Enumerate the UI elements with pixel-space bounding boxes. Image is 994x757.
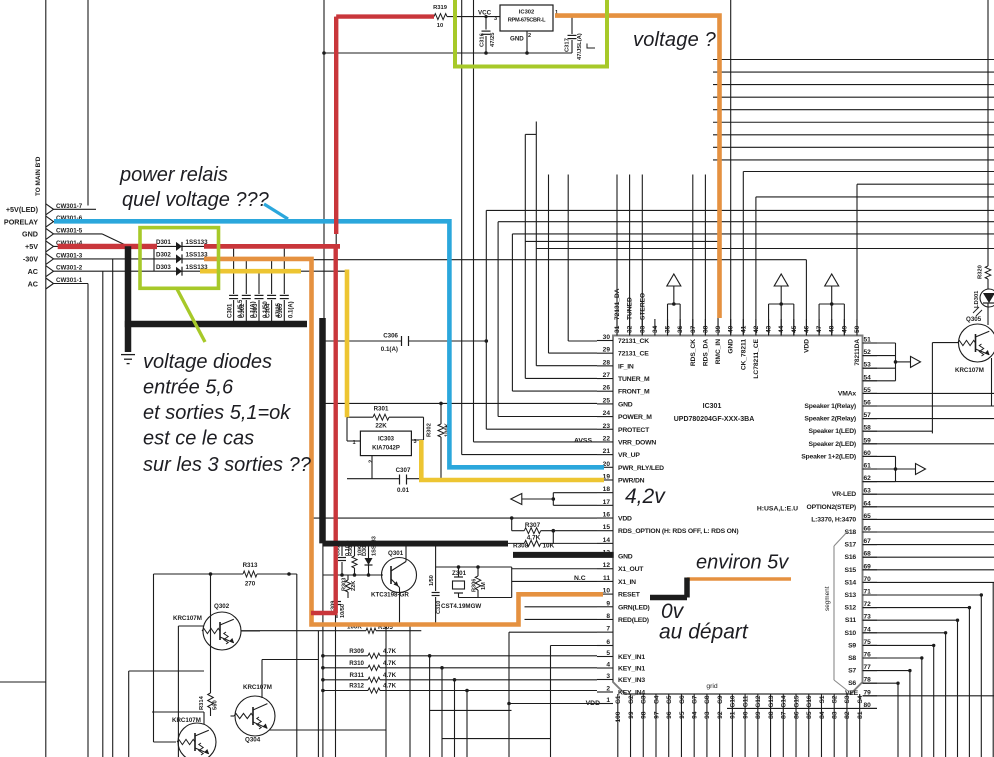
svg-text:grid: grid [706, 683, 718, 690]
wire vertical x473 to pin22 [474, 0, 598, 442]
annotation text environ 5v [696, 552, 789, 574]
svg-text:S9: S9 [848, 642, 856, 649]
wire staircase to pin23 [485, 210, 994, 429]
svg-text:S11: S11 [845, 617, 857, 624]
resistor R320 [978, 265, 991, 279]
wire D303 cathode row (under yellow) [204, 270, 348, 272]
svg-text:S12: S12 [845, 605, 857, 612]
svg-text:34: 34 [652, 325, 659, 333]
svg-text:26: 26 [603, 385, 611, 392]
svg-text:POWER_M: POWER_M [618, 414, 652, 421]
svg-text:G4: G4 [653, 695, 660, 704]
wire bus top right 9 lines [713, 60, 994, 160]
svg-text:S8: S8 [848, 655, 856, 662]
annotation text power relais quel voltage [119, 164, 270, 211]
svg-text:29: 29 [603, 347, 611, 354]
svg-text:+5V: +5V [25, 242, 38, 251]
wire row to R302 top [323, 402, 598, 406]
svg-text:16: 16 [603, 512, 611, 519]
wire R319 feed vertical (under red) [335, 17, 337, 247]
transistor Q302 KRC107M [173, 603, 241, 650]
annotation green box around IC302 [455, 0, 607, 67]
svg-text:LC78211_CE: LC78211_CE [753, 338, 760, 378]
label N.C [574, 575, 586, 582]
svg-text:S2: S2 [832, 695, 839, 703]
buffer triangle above pins 43-45 [769, 274, 794, 336]
crystal Z301 CST4.19MGW [441, 567, 481, 610]
annotation text 0v au depart [659, 600, 749, 644]
resistor R312 4.7K [321, 683, 597, 757]
annotation text voltage ? [633, 29, 717, 51]
svg-text:KEY_IN1: KEY_IN1 [618, 654, 645, 661]
svg-text:R320: R320 [978, 265, 984, 279]
svg-text:R319: R319 [433, 5, 448, 11]
svg-text:KRC107M: KRC107M [955, 367, 984, 374]
resistor R313 270 [154, 562, 297, 588]
wire annotation yellow PWR/DN trace [200, 270, 604, 481]
svg-text:D302: D302 [156, 252, 171, 259]
svg-text:91: 91 [730, 711, 737, 719]
svg-text:Speaker 2(LED): Speaker 2(LED) [809, 441, 856, 448]
svg-text:environ 5v: environ 5v [696, 552, 789, 574]
svg-text:90: 90 [742, 711, 749, 719]
transistor Q301 KTC3198-GR [371, 550, 417, 599]
wire VEE rows [727, 696, 994, 709]
svg-text:R311: R311 [350, 672, 365, 679]
svg-text:voltage ?: voltage ? [633, 29, 717, 51]
svg-text:94: 94 [691, 711, 698, 719]
svg-text:Q301: Q301 [388, 550, 404, 557]
svg-text:22K: 22K [351, 581, 357, 591]
svg-text:47/JSL(A): 47/JSL(A) [577, 33, 583, 60]
buffer arrow pins 60-62 [863, 456, 926, 481]
wire Q303 connections [0, 671, 204, 757]
svg-text:G5: G5 [666, 695, 673, 704]
capacitor C301 0.1/5.5 [227, 246, 243, 324]
transistor Q304 KRC107M [234, 684, 275, 744]
svg-text:KEY_IN1: KEY_IN1 [618, 666, 645, 673]
svg-text:40: 40 [728, 325, 735, 333]
resistor R319 10 [433, 5, 448, 29]
svg-text:STEREO: STEREO [639, 293, 646, 320]
svg-text:87: 87 [781, 711, 788, 719]
svg-text:PWR_RLY/LED: PWR_RLY/LED [618, 465, 664, 472]
svg-text:RDS_OPTION (H: RDS OFF, L: RD: RDS_OPTION (H: RDS OFF, L: RDS ON) [618, 528, 738, 535]
wire IC303 pin2 down [371, 456, 373, 479]
svg-text:24: 24 [603, 410, 611, 417]
op-amp U IC301 UPD780204GF-XXX-3BA microcontroller [613, 336, 863, 695]
resistor R306 1M [472, 567, 488, 598]
svg-text:X1_OUT: X1_OUT [618, 566, 644, 573]
resistor R301 22K [347, 406, 424, 441]
svg-text:TUNER_M: TUNER_M [618, 376, 650, 383]
wire R319 to IC302 VCC [447, 16, 500, 18]
svg-text:Q305: Q305 [966, 316, 982, 323]
svg-text:R303: R303 [342, 578, 348, 591]
capacitor C308 0.1(A) [336, 540, 352, 575]
svg-text:RPM-675CBR-L: RPM-675CBR-L [508, 18, 546, 24]
svg-text:86: 86 [793, 711, 800, 719]
svg-text:97: 97 [653, 711, 660, 719]
buffer triangle above pins 47-49 [819, 274, 844, 336]
resistor R309 4.7K [321, 648, 597, 757]
svg-text:VR_UP: VR_UP [618, 452, 640, 459]
wire vertical bus x324 [322, 0, 326, 320]
wire Q302 base feed [178, 626, 204, 757]
svg-text:G16: G16 [806, 695, 813, 708]
svg-text:voltage diodes: voltage diodes [143, 351, 272, 373]
svg-text:7: 7 [606, 626, 610, 633]
svg-text:D301: D301 [156, 239, 171, 246]
svg-text:RDS_CK: RDS_CK [690, 339, 697, 366]
svg-text:84: 84 [819, 711, 826, 719]
annotation text 4,2v [625, 485, 666, 508]
wire annotation red +5V trace [58, 17, 434, 613]
svg-text:G1: G1 [615, 695, 622, 704]
svg-text:78211DA: 78211DA [854, 339, 861, 366]
svg-text:G12: G12 [755, 695, 762, 708]
svg-text:33: 33 [639, 325, 646, 333]
svg-text:G14: G14 [781, 695, 788, 708]
capacitor C309 10/50 [331, 575, 347, 618]
svg-text:H:USA,L:E.U: H:USA,L:E.U [757, 506, 798, 513]
wire Q302 connections [211, 574, 261, 650]
wire feeds to pins 37,38 [693, 175, 706, 336]
svg-text:39: 39 [715, 325, 722, 333]
svg-text:AC: AC [28, 279, 38, 288]
svg-text:Speaker 2(Relay): Speaker 2(Relay) [804, 416, 856, 423]
wire row y184 with branch to Q305 [857, 184, 994, 433]
svg-text:KEY_IN3: KEY_IN3 [618, 677, 645, 684]
svg-text:100: 100 [615, 711, 622, 722]
svg-text:30: 30 [603, 334, 611, 341]
wire R313 verticals [154, 574, 297, 757]
diode D301 1SS133 [156, 239, 208, 251]
svg-text:42: 42 [753, 325, 760, 333]
svg-text:17: 17 [603, 499, 611, 506]
svg-text:G6: G6 [679, 695, 686, 704]
svg-text:R309: R309 [349, 648, 364, 655]
svg-text:C304: C304 [265, 303, 271, 318]
svg-text:47/25: 47/25 [490, 32, 496, 47]
svg-text:22: 22 [603, 435, 611, 442]
svg-text:power relais: power relais [119, 164, 228, 186]
svg-text:18: 18 [603, 486, 611, 493]
wire bottom center rows [430, 710, 551, 738]
svg-text:L:3370, H:3470: L:3370, H:3470 [811, 516, 856, 523]
svg-text:G2: G2 [628, 695, 635, 704]
svg-text:R312: R312 [349, 683, 364, 690]
buffer arrow pins 51-54 [863, 343, 921, 381]
capacitor C307 0.01 [347, 467, 441, 494]
IC301 left pin numbers and stubs [586, 334, 739, 707]
svg-text:8: 8 [606, 613, 610, 620]
resistor R308 10K [508, 540, 597, 549]
svg-text:G8: G8 [704, 695, 711, 704]
svg-text:S16: S16 [845, 554, 857, 561]
svg-text:10K: 10K [543, 543, 555, 550]
svg-text:0.1(A): 0.1(A) [289, 301, 295, 318]
wire speaker rows to edge [863, 393, 994, 519]
svg-text:25: 25 [603, 397, 611, 404]
svg-text:Z301: Z301 [452, 570, 467, 577]
svg-text:41: 41 [740, 325, 747, 333]
svg-text:1/50: 1/50 [429, 575, 435, 586]
annotation green box around diodes [140, 228, 219, 342]
svg-text:R310: R310 [349, 660, 364, 667]
svg-text:UPD780204GF-XXX-3BA: UPD780204GF-XXX-3BA [674, 416, 755, 423]
svg-text:OPTION2(STEP): OPTION2(STEP) [806, 504, 856, 511]
svg-text:89: 89 [755, 711, 762, 719]
buffer arrow at pins 17-18 [511, 493, 597, 506]
wire IC303 pin1 [347, 417, 360, 441]
svg-text:72131_CK: 72131_CK [618, 338, 649, 345]
wire Q305 base link [932, 343, 959, 434]
svg-text:Q302: Q302 [214, 603, 230, 610]
diode D302 1SS133 [156, 252, 208, 264]
svg-text:4.7K: 4.7K [383, 683, 397, 690]
wire AC net to diode D303 [54, 271, 155, 757]
wire Q305 emitter down [991, 358, 993, 406]
svg-text:R307: R307 [525, 522, 541, 529]
wire Q301 collector [405, 546, 407, 562]
svg-text:92: 92 [717, 711, 724, 719]
svg-text:GND: GND [618, 401, 633, 408]
op-amp U IC302 RPM-675CBR-L [478, 5, 558, 43]
svg-text:C301: C301 [227, 303, 233, 318]
svg-text:2: 2 [528, 33, 531, 39]
svg-text:CST4.19MGW: CST4.19MGW [441, 603, 481, 610]
IC301 right pin numbers and stubs [757, 337, 877, 709]
svg-text:TO MAIN B'D: TO MAIN B'D [35, 156, 42, 196]
svg-text:S17: S17 [845, 542, 857, 549]
svg-text:PORELAY: PORELAY [4, 217, 38, 226]
svg-text:R306: R306 [472, 579, 478, 592]
resistor R304 10K [348, 542, 364, 575]
svg-text:28: 28 [603, 359, 611, 366]
LED LD301 [973, 279, 994, 325]
annotation black step mark at RESET [650, 578, 687, 598]
svg-text:88: 88 [768, 711, 775, 719]
svg-text:GND: GND [618, 554, 633, 561]
wire feeds to IC301 top pins 31-33 [617, 175, 642, 336]
svg-text:14: 14 [603, 537, 611, 544]
svg-text:23: 23 [603, 423, 611, 430]
wire segment staircase S13-S6 [863, 593, 984, 757]
svg-text:CK_78211: CK_78211 [740, 339, 747, 370]
svg-text:C316: C316 [480, 32, 486, 47]
svg-text:95: 95 [679, 711, 686, 719]
svg-text:4.7K: 4.7K [527, 535, 541, 542]
svg-text:RDS_DA: RDS_DA [702, 339, 709, 366]
svg-text:Speaker 1+2(LED): Speaker 1+2(LED) [801, 453, 856, 460]
wire VDD pin1 row [507, 702, 597, 706]
wire +5V(LED) net [54, 208, 97, 210]
svg-text:G7: G7 [691, 695, 698, 704]
svg-text:GND: GND [510, 36, 524, 43]
buffer triangle above pins 35-36 [667, 274, 681, 336]
wire to pin28 via x536 [536, 134, 994, 365]
wire staircase to pin26 [512, 234, 994, 391]
svg-text:81: 81 [857, 711, 864, 719]
svg-text:4.7K: 4.7K [383, 672, 397, 679]
svg-text:46: 46 [803, 325, 810, 333]
svg-text:VDD: VDD [618, 516, 632, 523]
svg-text:C317: C317 [565, 38, 571, 52]
svg-text:82: 82 [844, 711, 851, 719]
svg-text:C307: C307 [396, 467, 411, 474]
svg-text:2: 2 [606, 686, 610, 693]
capacitor C304 47/25 [265, 259, 281, 324]
svg-text:0.01: 0.01 [397, 487, 410, 494]
capacitor C310 1/50 [429, 546, 442, 625]
wire S18-S14 rows to edge [863, 532, 994, 582]
svg-text:6: 6 [606, 639, 610, 646]
svg-text:D303: D303 [156, 264, 171, 271]
svg-text:37: 37 [690, 325, 697, 333]
svg-text:KRC107M: KRC107M [172, 717, 201, 724]
capacitor C305 0.1(A) [278, 246, 294, 324]
wire pin3 to yellow corner [0, 0, 1, 1]
svg-text:AVSS: AVSS [574, 438, 592, 445]
svg-text:10/50: 10/50 [340, 604, 346, 618]
svg-text:96: 96 [666, 711, 673, 719]
svg-text:S6: S6 [848, 680, 856, 687]
svg-text:VRR_DOWN: VRR_DOWN [618, 439, 656, 446]
capacitor C302 0.1(A) [240, 259, 256, 324]
wire feed to pin 39 RMC_IN [717, 241, 719, 335]
svg-text:VR-LED: VR-LED [832, 491, 856, 498]
svg-text:S1: S1 [819, 695, 826, 703]
wire RED LED pin8 row [525, 618, 598, 620]
svg-text:TUNED: TUNED [627, 297, 634, 320]
wire GND rail y53 [324, 51, 572, 55]
label grid [706, 683, 718, 690]
svg-text:72131_DA: 72131_DA [614, 288, 621, 320]
svg-text:KRC107M: KRC107M [173, 615, 202, 622]
transistor Q305 KRC107M [955, 316, 994, 374]
svg-text:G9: G9 [717, 695, 724, 704]
resistor R305 100K [241, 624, 421, 634]
wire right edge vertical x988 [987, 0, 989, 266]
svg-text:31: 31 [614, 325, 621, 333]
svg-text:560: 560 [213, 700, 219, 710]
wire GND net to ground bus [54, 234, 129, 246]
svg-text:C305: C305 [278, 303, 284, 318]
svg-text:12: 12 [603, 562, 611, 569]
wire staple to pin27 [525, 122, 718, 379]
svg-text:C303: C303 [253, 303, 259, 318]
svg-text:85: 85 [806, 711, 813, 719]
svg-text:C302: C302 [240, 303, 246, 318]
svg-text:X1_IN: X1_IN [618, 579, 636, 586]
svg-text:G11: G11 [742, 695, 749, 707]
svg-text:-30V: -30V [23, 255, 38, 264]
wire +5V net (under red) [54, 245, 158, 247]
svg-text:GRN(LED): GRN(LED) [618, 604, 650, 611]
svg-text:10: 10 [603, 588, 611, 595]
svg-text:270: 270 [245, 581, 256, 588]
label segment with brace [824, 531, 848, 691]
svg-text:G13: G13 [768, 695, 775, 708]
svg-text:83: 83 [832, 711, 839, 719]
IC301 bottom pin numbers grid/segment pins [615, 694, 864, 757]
svg-text:21: 21 [603, 448, 611, 455]
svg-text:10: 10 [437, 23, 443, 29]
wire feed to pin 42 [756, 197, 994, 336]
svg-text:entrée 5,6: entrée 5,6 [143, 377, 234, 399]
resistor R311 4.7K [321, 672, 597, 757]
wire staircase to pin24 [498, 222, 994, 417]
svg-text:LD301: LD301 [974, 290, 980, 308]
svg-text:S14: S14 [845, 579, 857, 586]
svg-text:KIA7042P: KIA7042P [372, 446, 400, 452]
wire S14 staircase extra vertical [992, 582, 994, 757]
capacitor C306 0.1(A) on pin30 row [323, 333, 487, 354]
svg-text:G10: G10 [730, 695, 737, 708]
svg-text:S7: S7 [848, 668, 856, 675]
wire pin7 row and vertical [509, 632, 597, 757]
svg-text:IC302: IC302 [519, 10, 534, 16]
svg-text:11: 11 [603, 575, 610, 582]
wire GRN LED pin9 row [525, 606, 598, 608]
ground [121, 355, 135, 364]
svg-text:Q304: Q304 [245, 737, 261, 744]
svg-text:R301: R301 [374, 406, 389, 413]
svg-text:72131_CE: 72131_CE [618, 351, 649, 358]
svg-text:99: 99 [628, 711, 635, 719]
resistor R307 4.7K [512, 522, 597, 543]
svg-text:R308: R308 [513, 543, 529, 550]
connector CW301 TO MAIN B'D [4, 0, 88, 757]
svg-text:sur les 3 sorties ??: sur les 3 sorties ?? [143, 454, 312, 476]
svg-text:est ce le cas: est ce le cas [143, 428, 254, 450]
wire Q301 base row [323, 573, 384, 577]
svg-text:4.7K: 4.7K [383, 648, 397, 655]
wire feed to pin 40 GND [730, 0, 732, 336]
svg-text:RESET: RESET [618, 592, 641, 599]
wire vertical x548 to pin29 [549, 175, 598, 354]
svg-text:4: 4 [606, 662, 610, 669]
wire PORELAY net (under blue) [54, 221, 452, 223]
svg-text:S15: S15 [845, 567, 857, 574]
svg-text:15: 15 [603, 524, 611, 531]
wire IC302 GND pin2 [526, 31, 528, 53]
svg-text:R302: R302 [427, 423, 433, 437]
resistor R310 4.7K [321, 660, 597, 757]
IC301 top pin numbers and stubs [614, 288, 861, 378]
wire diode anode links [154, 246, 204, 271]
svg-text:S3: S3 [844, 695, 851, 703]
svg-text:PWR/DN: PWR/DN [618, 477, 645, 484]
svg-text:KTC3198-GR: KTC3198-GR [371, 592, 409, 599]
svg-text:R313: R313 [243, 562, 258, 569]
svg-text:S13: S13 [845, 592, 857, 599]
label AVSS [574, 438, 592, 445]
svg-text:RED(LED): RED(LED) [618, 617, 649, 624]
svg-text:IC301: IC301 [703, 403, 722, 410]
wire bottom verticals near x320 [318, 543, 410, 757]
wire annotation thick black ground trace [125, 246, 614, 555]
svg-text:1: 1 [606, 697, 610, 704]
wire feed to pin 41 [743, 172, 994, 336]
svg-text:RMC_IN: RMC_IN [715, 339, 722, 365]
svg-text:PROTECT: PROTECT [618, 427, 650, 434]
wire pin6 row and vertical [551, 646, 598, 757]
wire AC net 2 [54, 284, 89, 757]
capacitor C317 47/JSL(A) [565, 16, 596, 60]
svg-text:32: 32 [627, 325, 634, 333]
